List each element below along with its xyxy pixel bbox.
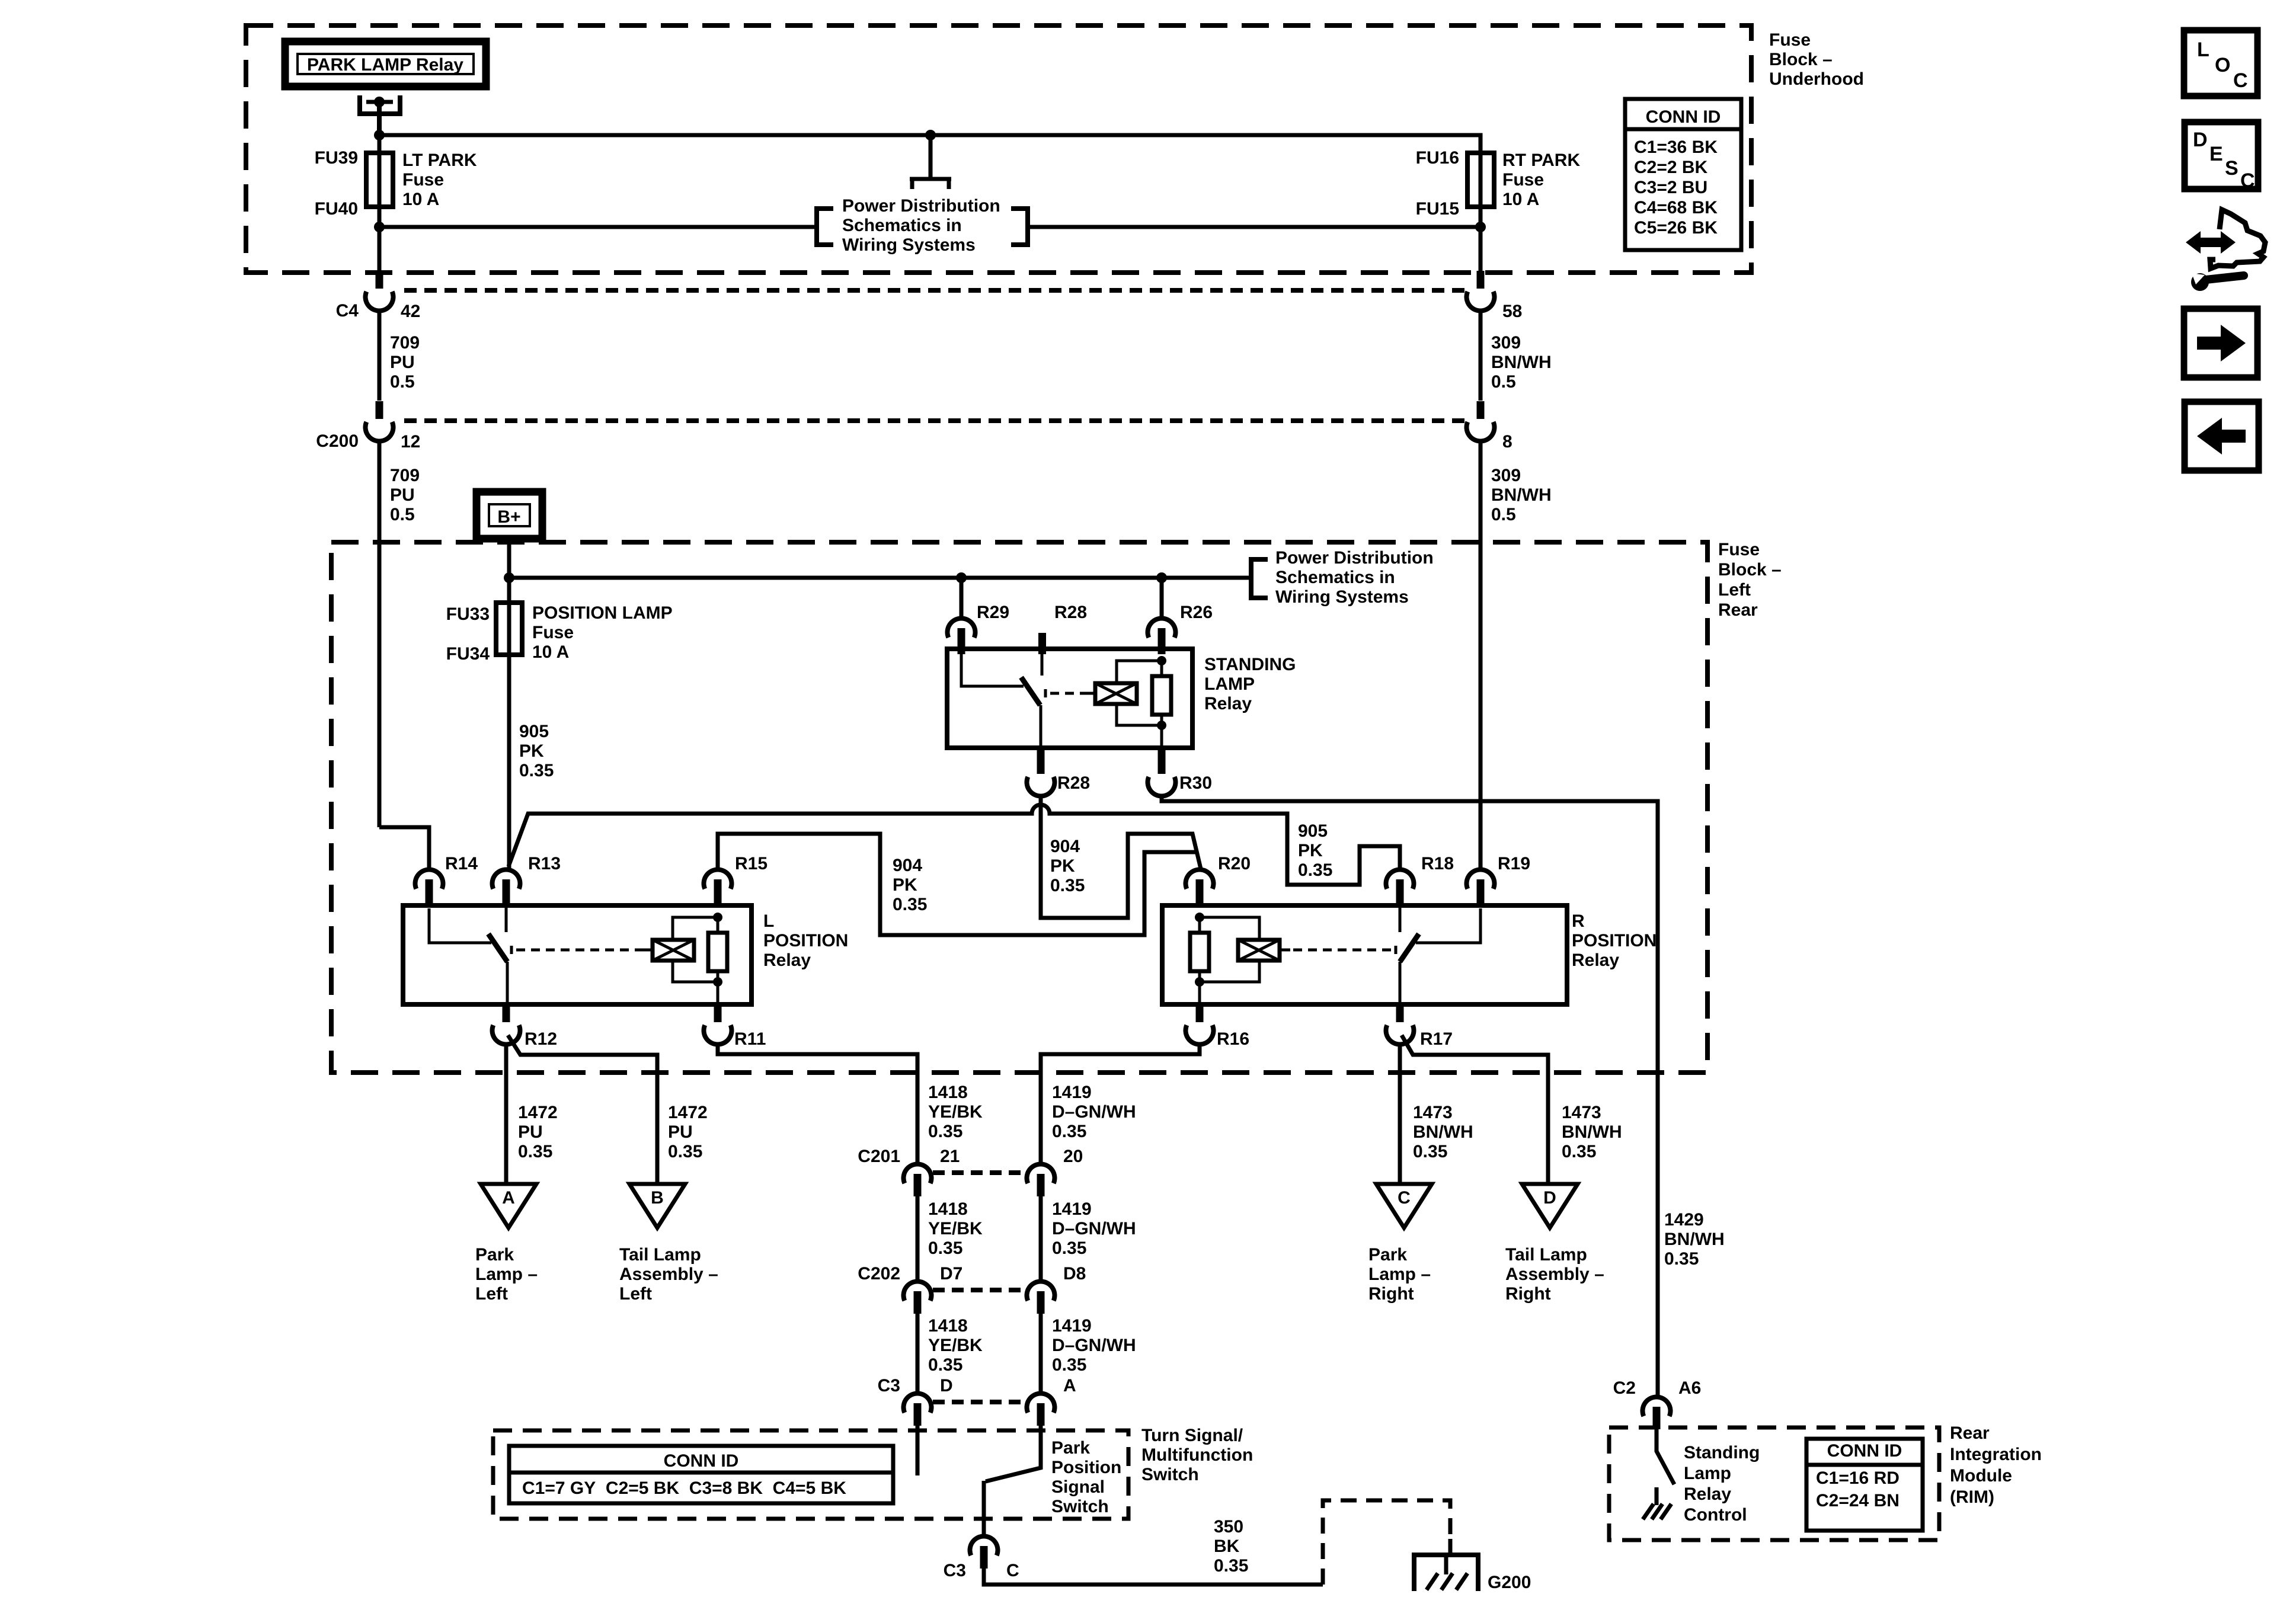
svg-text:YE/BK: YE/BK xyxy=(928,1219,983,1238)
connector terminal R18 xyxy=(1386,869,1414,889)
harness dotted line at C201 xyxy=(933,1170,1025,1175)
connector C4 pin 58 right xyxy=(1477,271,1485,289)
svg-text:PU: PU xyxy=(668,1122,693,1142)
svg-text:POSITION: POSITION xyxy=(763,931,848,950)
wire 1472 PU branch to tail lamp left xyxy=(508,1035,657,1184)
connector C202 left pin D7 xyxy=(904,1281,932,1301)
svg-text:20: 20 xyxy=(1063,1147,1083,1166)
wire L coil to R11 pin xyxy=(717,982,720,1004)
svg-text:S: S xyxy=(2225,157,2239,180)
svg-text:R28: R28 xyxy=(1054,603,1087,622)
svg-text:1418: 1418 xyxy=(928,1316,968,1336)
svg-text:Rear: Rear xyxy=(1950,1423,1990,1443)
harness dotted line at C4 xyxy=(404,288,1466,293)
svg-text:12: 12 xyxy=(401,432,420,452)
svg-text:Wiring Systems: Wiring Systems xyxy=(1275,587,1409,607)
junction node L relay bottom xyxy=(713,977,722,987)
connector C2 pin A6 xyxy=(1643,1397,1671,1416)
svg-text:0.35: 0.35 xyxy=(1298,860,1332,880)
wire 905 PK R13 to R18 xyxy=(509,805,1400,885)
connector C3 left pin D xyxy=(904,1393,932,1413)
svg-text:Fuse: Fuse xyxy=(402,170,444,190)
connector C3 right pin A xyxy=(1027,1393,1055,1413)
connector terminal R17 xyxy=(1396,1004,1404,1022)
svg-text:Park: Park xyxy=(1368,1245,1407,1265)
fuse FU33/FU34 POSITION LAMP Fuse 10 A xyxy=(507,578,511,869)
R relay switch xyxy=(1400,905,1480,1004)
wire bus inside left rear box xyxy=(509,576,1251,580)
junction node above FU39 xyxy=(374,130,385,140)
svg-text:PK: PK xyxy=(519,741,544,761)
connector terminal R16 xyxy=(1196,1004,1204,1022)
svg-text:1419: 1419 xyxy=(1052,1316,1092,1336)
wire 709 PU down to fuse block left rear xyxy=(378,440,382,827)
svg-text:BN/WH: BN/WH xyxy=(1491,485,1552,505)
wire bracket to FU15 xyxy=(1028,225,1480,229)
svg-text:R20: R20 xyxy=(1218,854,1251,873)
L relay switch xyxy=(429,905,507,1004)
fuse FU16/FU15 RT PARK Fuse 10 A xyxy=(1479,153,1483,271)
wire from PARK LAMP Relay terminal to bus xyxy=(377,102,382,135)
wire 309 BN/WH down to R19 xyxy=(1479,440,1483,870)
svg-text:0.35: 0.35 xyxy=(1052,1355,1086,1375)
svg-text:Assembly –: Assembly – xyxy=(619,1265,718,1284)
wire into G200 xyxy=(1448,1539,1453,1555)
R relay coil link dashes xyxy=(1280,946,1396,954)
svg-text:C: C xyxy=(2233,69,2248,92)
svg-text:C: C xyxy=(1006,1561,1019,1580)
svg-text:A6: A6 xyxy=(1678,1378,1701,1398)
svg-text:Relay: Relay xyxy=(1204,694,1252,713)
svg-text:0.35: 0.35 xyxy=(893,895,927,914)
triangle connector C Park Lamp Right xyxy=(1376,1184,1432,1228)
connector C201 left pin 21 xyxy=(904,1164,932,1183)
svg-text:0.35: 0.35 xyxy=(1052,1122,1086,1141)
svg-text:Assembly –: Assembly – xyxy=(1505,1265,1604,1284)
svg-text:PK: PK xyxy=(893,875,917,895)
ground G200 xyxy=(1412,1555,1480,1591)
triangle connector D Tail Lamp Right xyxy=(1522,1184,1578,1228)
reference bracket left xyxy=(817,209,833,245)
connector terminal R14 xyxy=(415,869,443,889)
connector terminal R15 xyxy=(703,869,731,889)
R relay resistor xyxy=(1198,917,1201,982)
svg-text:Fuse: Fuse xyxy=(1769,30,1811,50)
svg-text:0.35: 0.35 xyxy=(668,1142,702,1161)
svg-text:1418: 1418 xyxy=(928,1083,968,1102)
svg-text:E: E xyxy=(2209,143,2223,165)
svg-text:Schematics in: Schematics in xyxy=(842,216,962,235)
standing relay switch xyxy=(961,652,1042,748)
wire 1429 BN/WH from R30 to RIM A6 xyxy=(1162,796,1658,1397)
svg-text:PK: PK xyxy=(1298,841,1323,860)
svg-text:D: D xyxy=(1543,1188,1556,1208)
svg-text:Fuse: Fuse xyxy=(1502,170,1544,190)
svg-text:PU: PU xyxy=(518,1122,543,1142)
terminal pin R28 top xyxy=(1038,633,1046,654)
svg-text:Control: Control xyxy=(1684,1505,1747,1525)
icon box LOC xyxy=(2184,30,2257,96)
svg-text:CONN ID: CONN ID xyxy=(1827,1441,1902,1461)
svg-text:R18: R18 xyxy=(1421,854,1454,873)
svg-text:0.35: 0.35 xyxy=(1562,1142,1596,1161)
svg-text:Integration: Integration xyxy=(1950,1445,2042,1464)
svg-text:C201: C201 xyxy=(858,1147,900,1166)
wire 1419 D-GN/WH C202 to C3 xyxy=(1039,1314,1043,1394)
standing relay coil link dashes xyxy=(1045,689,1095,697)
svg-text:R28: R28 xyxy=(1057,773,1090,793)
svg-text:Schematics in: Schematics in xyxy=(1275,568,1395,587)
fuse FU39/FU40 LT PARK Fuse 10 A xyxy=(378,135,382,227)
svg-text:Module: Module xyxy=(1950,1466,2012,1486)
svg-text:FU15: FU15 xyxy=(1416,199,1459,219)
wire bus to R29 xyxy=(960,578,964,619)
svg-text:G200: G200 xyxy=(1488,1573,1531,1592)
triangle connector A Park Lamp Left xyxy=(481,1184,536,1228)
svg-text:Park: Park xyxy=(475,1245,514,1265)
svg-text:L: L xyxy=(2197,39,2209,61)
power label box B+ xyxy=(477,492,542,539)
dashed box Turn Signal Multifunction Switch xyxy=(493,1430,1128,1519)
wire 1418 YE/BK C202 to C3 xyxy=(916,1314,920,1394)
svg-text:1473: 1473 xyxy=(1562,1103,1601,1122)
svg-text:Turn Signal/: Turn Signal/ xyxy=(1141,1426,1243,1445)
svg-text:C3: C3 xyxy=(878,1376,900,1395)
svg-text:0.35: 0.35 xyxy=(518,1142,552,1161)
standing relay coil loop xyxy=(1117,661,1162,725)
svg-text:0.35: 0.35 xyxy=(928,1355,962,1375)
relay box R POSITION Relay xyxy=(1162,905,1567,1004)
svg-text:Tail Lamp: Tail Lamp xyxy=(619,1245,701,1265)
wire B+ to bus xyxy=(507,539,511,578)
junction node standing relay top xyxy=(1157,656,1166,665)
wire to C3-C xyxy=(982,1481,986,1537)
svg-text:904: 904 xyxy=(893,856,922,875)
svg-text:D: D xyxy=(2193,129,2208,151)
svg-text:Block –: Block – xyxy=(1769,50,1833,69)
icon box DESC xyxy=(2185,122,2258,189)
svg-text:8: 8 xyxy=(1502,432,1512,452)
svg-text:10 A: 10 A xyxy=(402,190,439,209)
reference pointer to Power Distribution xyxy=(910,135,951,189)
wire bus to R26 xyxy=(1160,578,1164,619)
svg-text:350: 350 xyxy=(1214,1517,1243,1537)
svg-text:C3: C3 xyxy=(944,1561,966,1580)
svg-text:YE/BK: YE/BK xyxy=(928,1102,983,1122)
connector terminal R12 xyxy=(503,1004,510,1022)
svg-text:PU: PU xyxy=(390,485,415,505)
svg-text:905: 905 xyxy=(1298,821,1328,841)
svg-text:Relay: Relay xyxy=(763,950,811,970)
svg-text:POSITION: POSITION xyxy=(1572,931,1657,950)
junction node R relay top xyxy=(1195,913,1204,922)
svg-text:C: C xyxy=(1398,1188,1411,1208)
L relay coil loop xyxy=(673,917,718,982)
connector terminal R29 xyxy=(948,618,976,638)
connector terminal R20 xyxy=(1185,869,1213,889)
svg-text:C200: C200 xyxy=(316,431,359,451)
svg-text:1472: 1472 xyxy=(518,1103,558,1122)
svg-text:LT PARK: LT PARK xyxy=(402,151,477,170)
wire 1419 D-GN/WH R16 to C201-20 xyxy=(1041,1044,1200,1164)
connector C3 pin C xyxy=(970,1536,998,1555)
relay socket terminal under PARK LAMP Relay xyxy=(357,95,402,114)
svg-text:FU40: FU40 xyxy=(315,199,358,219)
standing relay coil xyxy=(1095,683,1137,704)
svg-text:Lamp –: Lamp – xyxy=(475,1265,538,1284)
svg-text:0.35: 0.35 xyxy=(1214,1556,1248,1576)
harness dotted line at C3 xyxy=(933,1400,1025,1404)
svg-text:STANDING: STANDING xyxy=(1204,655,1296,674)
svg-text:0.35: 0.35 xyxy=(1413,1142,1447,1161)
svg-text:PK: PK xyxy=(1050,856,1075,876)
R relay coil xyxy=(1238,940,1280,961)
triangle connector B Tail Lamp Left xyxy=(629,1184,685,1228)
connector C202 right pin D8 xyxy=(1027,1281,1055,1301)
svg-text:R15: R15 xyxy=(735,854,768,873)
svg-text:C3=2 BU: C3=2 BU xyxy=(1634,178,1707,197)
svg-text:BN/WH: BN/WH xyxy=(1413,1122,1473,1142)
svg-text:C5=26 BK: C5=26 BK xyxy=(1634,218,1718,238)
svg-text:L: L xyxy=(763,911,774,931)
component label box PARK LAMP Relay xyxy=(285,41,486,87)
svg-text:Fuse: Fuse xyxy=(532,623,574,642)
svg-text:Multifunction: Multifunction xyxy=(1141,1445,1253,1465)
svg-text:D–GN/WH: D–GN/WH xyxy=(1052,1102,1136,1122)
L relay coil xyxy=(653,940,694,961)
svg-text:42: 42 xyxy=(401,302,420,321)
L relay coil link dashes xyxy=(511,946,653,954)
connector id table RIM xyxy=(1806,1439,1923,1531)
svg-text:1429: 1429 xyxy=(1664,1210,1704,1230)
svg-text:R16: R16 xyxy=(1217,1029,1249,1049)
connector C4 pin 42 xyxy=(376,271,383,289)
svg-text:0.35: 0.35 xyxy=(928,1238,962,1258)
icon box arrow left xyxy=(2185,402,2259,470)
svg-text:R17: R17 xyxy=(1420,1029,1453,1049)
harness dotted line at C202 xyxy=(933,1288,1025,1292)
svg-text:709: 709 xyxy=(390,333,420,353)
svg-text:Park: Park xyxy=(1051,1438,1090,1458)
connector C200 pin 12 xyxy=(376,401,383,419)
junction node R29 tap xyxy=(956,572,967,583)
svg-text:FU34: FU34 xyxy=(446,644,490,664)
wire 1473 BN/WH R17 to park lamp right xyxy=(1398,1044,1402,1184)
svg-text:C1=36 BK: C1=36 BK xyxy=(1634,137,1718,157)
svg-text:FU16: FU16 xyxy=(1416,148,1459,168)
dashed outline at G200 splice xyxy=(1323,1500,1450,1585)
dashed box Fuse Block - Underhood xyxy=(246,25,1751,273)
connector id table turn signal switch xyxy=(509,1446,893,1503)
svg-text:PU: PU xyxy=(390,353,415,372)
svg-text:Left: Left xyxy=(619,1284,652,1304)
wire 1418 YE/BK R11 to C201-21 xyxy=(718,1044,917,1164)
wire 1472 PU R12 to park lamp left xyxy=(504,1044,509,1184)
svg-text:309: 309 xyxy=(1491,466,1521,485)
svg-text:0.35: 0.35 xyxy=(519,761,554,780)
standing relay resistor xyxy=(1160,661,1163,725)
junction node power distribution tap xyxy=(925,130,936,140)
svg-text:FU33: FU33 xyxy=(446,604,490,624)
relay box L POSITION Relay xyxy=(403,905,752,1004)
connector terminal R19 xyxy=(1467,869,1495,889)
svg-text:BN/WH: BN/WH xyxy=(1562,1122,1622,1142)
svg-text:Position: Position xyxy=(1051,1458,1121,1477)
svg-text:R13: R13 xyxy=(528,854,561,873)
wire 309 BN/WH to C200 right xyxy=(1479,310,1483,401)
wire to R14 xyxy=(379,827,429,869)
svg-text:D–GN/WH: D–GN/WH xyxy=(1052,1336,1136,1355)
svg-text:0.35: 0.35 xyxy=(1050,876,1085,895)
svg-text:C4: C4 xyxy=(336,301,359,321)
wire 350 BK to G200 xyxy=(984,1569,1323,1585)
connector terminal R13 xyxy=(492,869,520,889)
wire 709 PU C4 to C200 xyxy=(378,310,382,401)
svg-text:Left: Left xyxy=(475,1284,508,1304)
connector terminal R30 xyxy=(1158,748,1166,774)
wire 1419 D-GN/WH C201 to C202 xyxy=(1039,1196,1043,1282)
junction node below FU40 xyxy=(374,222,385,232)
svg-text:D7: D7 xyxy=(940,1264,962,1283)
RIM internal ground xyxy=(1643,1487,1671,1519)
svg-text:10 A: 10 A xyxy=(1502,190,1539,209)
svg-text:Signal: Signal xyxy=(1051,1477,1105,1497)
junction node below B+ xyxy=(504,572,514,583)
svg-text:D–GN/WH: D–GN/WH xyxy=(1052,1219,1136,1238)
svg-text:BN/WH: BN/WH xyxy=(1491,353,1552,372)
svg-text:R12: R12 xyxy=(525,1029,557,1049)
svg-text:D8: D8 xyxy=(1063,1264,1086,1283)
svg-text:C2: C2 xyxy=(1613,1378,1636,1398)
svg-text:10 A: 10 A xyxy=(532,642,569,662)
svg-text:CONN ID: CONN ID xyxy=(1646,107,1721,127)
svg-text:YE/BK: YE/BK xyxy=(928,1336,983,1355)
svg-text:905: 905 xyxy=(519,722,549,741)
park position switch blade xyxy=(986,1426,1041,1481)
svg-text:B: B xyxy=(651,1188,664,1208)
wire FU40 to bracket xyxy=(379,225,817,229)
svg-text:1419: 1419 xyxy=(1052,1199,1092,1219)
svg-text:1472: 1472 xyxy=(668,1103,708,1122)
svg-text:Rear: Rear xyxy=(1718,600,1758,620)
reference bracket left rear xyxy=(1251,559,1268,598)
svg-text:R11: R11 xyxy=(734,1029,766,1049)
connector terminal R26 xyxy=(1148,618,1176,638)
svg-text:D: D xyxy=(940,1376,953,1395)
wire 1418 YE/BK C201 to C202 xyxy=(916,1196,920,1282)
svg-text:21: 21 xyxy=(940,1147,960,1166)
dashed box Fuse Block - Left Rear xyxy=(331,542,1707,1073)
svg-text:Left: Left xyxy=(1718,580,1751,600)
icon box arrow right xyxy=(2184,309,2257,377)
harness dotted line at C200 xyxy=(404,418,1466,423)
svg-text:C1=7 GY C2=5 BK C3=8 BK C4=: C1=7 GY C2=5 BK C3=8 BK C4=5 BK xyxy=(522,1478,846,1498)
svg-text:Wiring Systems: Wiring Systems xyxy=(842,235,976,255)
svg-text:PARK LAMP Relay: PARK LAMP Relay xyxy=(307,55,463,75)
junction node R26 tap xyxy=(1156,572,1167,583)
svg-text:Standing: Standing xyxy=(1684,1443,1760,1462)
svg-text:LAMP: LAMP xyxy=(1204,674,1255,694)
svg-text:0.5: 0.5 xyxy=(390,505,415,524)
svg-text:904: 904 xyxy=(1050,837,1080,856)
svg-text:C4=68 BK: C4=68 BK xyxy=(1634,198,1718,217)
svg-text:Power Distribution: Power Distribution xyxy=(1275,548,1434,568)
svg-text:BN/WH: BN/WH xyxy=(1664,1230,1725,1249)
wire R coil to R16 pin xyxy=(1198,982,1201,1004)
junction node R relay bottom xyxy=(1195,977,1204,987)
svg-text:0.35: 0.35 xyxy=(928,1122,962,1141)
svg-text:A: A xyxy=(1063,1376,1076,1395)
connector id table top (underhood) xyxy=(1625,99,1741,250)
svg-text:309: 309 xyxy=(1491,333,1521,353)
svg-text:BK: BK xyxy=(1214,1537,1240,1556)
svg-text:CONN ID: CONN ID xyxy=(664,1451,739,1471)
svg-text:B+: B+ xyxy=(497,507,520,527)
wire 904 PK from R28 to R20 xyxy=(1041,796,1201,918)
svg-text:R: R xyxy=(1572,911,1585,931)
svg-text:A: A xyxy=(502,1188,515,1208)
dashed box Rear Integration Module xyxy=(1609,1427,1939,1540)
connector C201 right pin 20 xyxy=(1027,1164,1055,1183)
svg-text:Lamp: Lamp xyxy=(1684,1464,1731,1483)
connector terminal R28 bottom xyxy=(1037,748,1045,774)
svg-text:58: 58 xyxy=(1502,302,1522,321)
svg-text:1418: 1418 xyxy=(928,1199,968,1219)
svg-text:RT PARK: RT PARK xyxy=(1502,151,1580,170)
svg-text:R29: R29 xyxy=(977,603,1009,622)
svg-text:R30: R30 xyxy=(1179,773,1212,793)
wire 1473 BN/WH branch to tail lamp right xyxy=(1402,1035,1548,1184)
svg-text:Underhood: Underhood xyxy=(1769,69,1864,89)
junction node below FU15 xyxy=(1475,222,1486,232)
connector C200 pin 8 right xyxy=(1477,401,1485,419)
svg-text:C1=16 RD: C1=16 RD xyxy=(1816,1468,1900,1488)
svg-text:Relay: Relay xyxy=(1572,950,1619,970)
svg-text:Block –: Block – xyxy=(1718,560,1782,580)
svg-text:C2=2 BK: C2=2 BK xyxy=(1634,158,1708,177)
svg-text:1473: 1473 xyxy=(1413,1103,1453,1122)
svg-text:0.5: 0.5 xyxy=(1491,372,1516,392)
svg-text:(RIM): (RIM) xyxy=(1950,1487,1994,1507)
wire coil to R30 pin xyxy=(1160,725,1163,748)
svg-text:Right: Right xyxy=(1368,1284,1414,1304)
reference bracket right xyxy=(1011,209,1028,245)
svg-text:C2=24 BN: C2=24 BN xyxy=(1816,1491,1900,1510)
svg-text:709: 709 xyxy=(390,466,420,485)
svg-text:POSITION LAMP: POSITION LAMP xyxy=(532,603,673,623)
svg-text:C: C xyxy=(2240,169,2255,192)
svg-text:FU39: FU39 xyxy=(315,148,358,168)
svg-text:Fuse: Fuse xyxy=(1718,540,1760,559)
junction node L relay top xyxy=(713,913,722,922)
svg-text:0.35: 0.35 xyxy=(1052,1238,1086,1258)
svg-text:Switch: Switch xyxy=(1051,1497,1109,1516)
wire FU40 down to C4 xyxy=(378,227,382,271)
R relay coil loop xyxy=(1200,917,1259,982)
svg-text:Right: Right xyxy=(1505,1284,1551,1304)
wire bus B+ feed to FU16 xyxy=(379,135,1480,153)
svg-text:C202: C202 xyxy=(858,1264,900,1283)
svg-text:R19: R19 xyxy=(1498,854,1530,873)
svg-text:0.5: 0.5 xyxy=(1491,505,1516,524)
svg-text:0.5: 0.5 xyxy=(390,372,415,392)
svg-text:Tail Lamp: Tail Lamp xyxy=(1505,1245,1587,1265)
svg-text:O: O xyxy=(2215,54,2230,76)
svg-text:Switch: Switch xyxy=(1141,1465,1199,1484)
connector terminal R11 xyxy=(714,1004,722,1022)
svg-text:Lamp –: Lamp – xyxy=(1368,1265,1431,1284)
svg-text:Relay: Relay xyxy=(1684,1484,1731,1504)
